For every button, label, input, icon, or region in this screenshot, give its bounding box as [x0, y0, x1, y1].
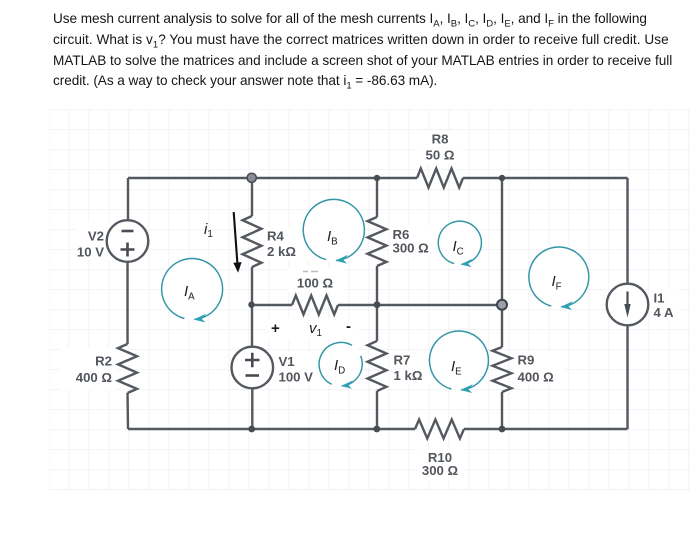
node junction bottom x=502	[499, 426, 506, 433]
mesh current ID	[318, 342, 362, 389]
wire branch x=377 (R6 / R7)	[376, 178, 378, 429]
svg-text:400 Ω: 400 Ω	[518, 370, 555, 385]
svg-text:100 Ω: 100 Ω	[297, 276, 334, 291]
resistor R2 400Ω	[60, 344, 137, 393]
current arrow i1	[204, 212, 242, 273]
resistor R8 50Ω	[417, 131, 463, 188]
wire branch x=252 (R4 / V1)	[251, 178, 254, 429]
svg-text:R2: R2	[95, 354, 112, 369]
svg-text:10 V: 10 V	[77, 245, 104, 260]
resistor R7 1kΩ	[368, 341, 438, 391]
svg-text:100 V: 100 V	[279, 370, 314, 385]
mesh current IF	[529, 247, 589, 310]
svg-text:R8: R8	[432, 132, 449, 147]
wire middle rail (node with 100 ohm)	[252, 304, 502, 306]
resistor R6 300Ω	[368, 217, 447, 266]
wire left rail	[126, 178, 129, 429]
svg-text:V2: V2	[88, 229, 104, 244]
mesh current IB	[303, 199, 364, 263]
mesh current IE	[429, 331, 488, 393]
node junction bottom x=252	[248, 426, 255, 433]
voltage source V2 10V	[76, 220, 148, 262]
svg-text:300 Ω: 300 Ω	[393, 241, 430, 256]
svg-text:50 Ω: 50 Ω	[426, 148, 455, 163]
svg-text:V1: V1	[279, 354, 295, 369]
svg-text:R9: R9	[518, 353, 535, 368]
svg-text:R4: R4	[267, 229, 285, 244]
current source I1 4A	[607, 284, 679, 326]
svg-text:-: -	[346, 318, 351, 335]
node junction top x=252	[247, 173, 256, 182]
wire right rail	[626, 178, 628, 429]
wire bottom rail	[128, 428, 628, 430]
resistor R4 2kΩ	[243, 216, 326, 267]
node junction bottom x=377	[373, 426, 380, 433]
node junction top x=502	[499, 175, 505, 181]
node junction middle x=377	[374, 301, 381, 308]
svg-text:400 Ω: 400 Ω	[76, 370, 113, 385]
wire branch x=502 (to R9)	[501, 178, 503, 429]
svg-text:300 Ω: 300 Ω	[422, 463, 459, 478]
resistor 100Ω	[288, 268, 344, 315]
svg-text:1 kΩ: 1 kΩ	[394, 368, 423, 383]
svg-text:4 A: 4 A	[654, 305, 675, 320]
label v1 polarity	[266, 318, 358, 339]
node junction top x=377	[374, 175, 380, 181]
mesh current IC	[438, 221, 481, 267]
svg-text:2 kΩ: 2 kΩ	[267, 244, 296, 259]
svg-text:+: +	[271, 320, 280, 337]
mesh current IA	[162, 258, 223, 322]
svg-text:R7: R7	[394, 353, 411, 368]
svg-text:I1: I1	[654, 291, 665, 306]
resistor R10 300Ω	[415, 420, 464, 482]
wire top rail	[128, 177, 628, 179]
resistor R9 400Ω	[493, 347, 566, 392]
node junction middle x=252	[248, 302, 254, 308]
voltage source V1 100V	[232, 347, 332, 389]
node junction middle x=502 (ring)	[497, 300, 507, 310]
